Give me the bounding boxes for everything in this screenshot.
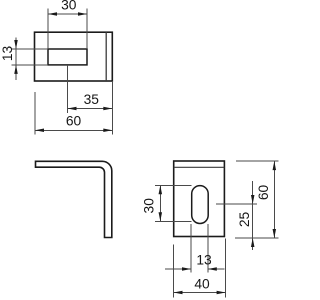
svg-text:13: 13 xyxy=(196,253,212,268)
dim 25 extension line top (slot centre) xyxy=(216,203,257,205)
dim 40 extension line right xyxy=(225,239,227,298)
dim 13 (front) dimension line right segment xyxy=(208,268,225,270)
dim 30 extension line left xyxy=(47,9,49,50)
dim 13 (front) arrow right (outside, pointing left) xyxy=(208,267,217,271)
dim 13 extension line bottom xyxy=(12,64,49,66)
dim 13 (front) dimension line left segment xyxy=(165,268,191,270)
dim 13 (front) extension line right xyxy=(207,224,209,273)
dim 35 arrow left xyxy=(68,107,77,111)
dim 13 dimension line xyxy=(15,38,17,81)
dim 35 extension line left (slot centre) xyxy=(67,65,69,113)
dim 60 arrow right xyxy=(103,129,112,133)
front view slot 13x30 (obround) xyxy=(192,186,209,224)
front view outer rectangle (40x60 leg) xyxy=(174,161,225,237)
svg-text:40: 40 xyxy=(194,277,210,292)
dim 60 (front) extension line bottom (shared with 25) xyxy=(235,237,279,239)
dim 25 dimension line xyxy=(252,181,254,250)
dim 35 extension line right xyxy=(111,81,113,135)
dim 30 (front) extension line bottom xyxy=(155,220,192,222)
dim 30 dimension line xyxy=(48,13,87,15)
top view outer rectangle (60x40 flange) xyxy=(35,32,113,81)
dim 13 extension line top xyxy=(12,48,49,50)
dim 30 (front) dimension line xyxy=(159,185,161,221)
svg-text:30: 30 xyxy=(142,198,157,214)
dim 35 arrow right xyxy=(103,107,112,111)
svg-text:60: 60 xyxy=(66,114,82,129)
front view bend line xyxy=(174,166,225,168)
dim 30 arrow right xyxy=(78,12,87,16)
dim 13 arrow bottom (outside, pointing up) xyxy=(14,65,18,74)
dim 30 extension line right xyxy=(86,9,88,50)
svg-text:30: 30 xyxy=(61,0,77,13)
side view L-profile xyxy=(36,161,112,237)
svg-text:13: 13 xyxy=(0,46,15,62)
top view slot 30x13 xyxy=(48,49,87,65)
dim 13 arrow top (outside, pointing down) xyxy=(14,40,18,49)
dim 30 (front) extension line top xyxy=(155,184,192,186)
dim 35 dimension line xyxy=(68,108,113,110)
top view bend line xyxy=(105,32,107,81)
dim 60 arrow left xyxy=(35,129,44,133)
dim 25 arrow top (outside, pointing down) xyxy=(251,195,255,204)
dim 60 extension line left xyxy=(34,92,36,135)
dim 30 arrow left xyxy=(48,12,57,16)
dim 13 (front) arrow left (outside, pointing right) xyxy=(182,267,191,271)
dim 13 (front) extension line left xyxy=(190,224,192,273)
dim 40 arrow left xyxy=(174,291,183,295)
svg-text:25: 25 xyxy=(237,212,252,228)
dim 40 arrow right xyxy=(217,291,226,295)
dim 60 (front) extension line top xyxy=(236,160,279,162)
dim 30 (front) arrow top xyxy=(159,185,163,194)
dim 30 (front) arrow bottom xyxy=(159,212,163,221)
dim 40 extension line left xyxy=(173,245,175,298)
dim 60 (front) arrow bottom xyxy=(273,229,277,238)
dim 60 (front) dimension line xyxy=(273,161,275,238)
dim 25 arrow bottom (outside, pointing up) xyxy=(251,238,255,247)
svg-text:35: 35 xyxy=(84,92,100,107)
dim 60 dimension line xyxy=(35,129,112,131)
svg-text:60: 60 xyxy=(256,185,271,201)
dim 60 (front) arrow top xyxy=(273,161,277,170)
dim 40 dimension line xyxy=(174,292,226,294)
